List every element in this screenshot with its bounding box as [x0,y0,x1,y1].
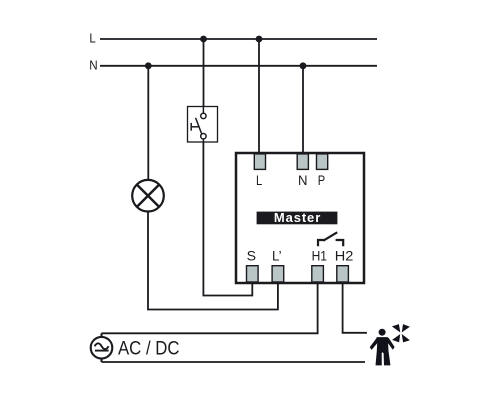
pin label L' [272,247,282,263]
fan / motion pinwheel [392,324,410,342]
terminal N [297,154,308,170]
pin label N [298,172,308,188]
device name plate Master [257,210,338,225]
terminal H2 [337,266,349,282]
pin label S [247,247,256,263]
svg-text:S: S [247,247,256,263]
terminal P [317,154,328,170]
pin label H1 [312,247,328,263]
wire N to lamp [147,66,149,180]
wire switch to S terminal [203,142,252,295]
svg-text:N: N [89,58,97,72]
person pictogram [370,329,395,366]
pin label P [318,172,325,188]
svg-text:AC / DC: AC / DC [118,339,180,360]
junction on L at device drop [256,36,263,43]
svg-text:H2: H2 [335,247,354,263]
wire H2 stub to sensor [343,282,367,333]
svg-text:L: L [89,32,95,46]
svg-text:L’: L’ [272,247,282,263]
net label L [89,32,95,46]
wire L bus to terminal L [258,39,260,153]
wire supply plus to H1 [102,332,319,334]
svg-text:H1: H1 [312,247,328,263]
lamp E1 [132,180,164,212]
wire H1 to supply [317,282,319,333]
terminal L' [272,266,284,282]
pin label L [256,172,262,188]
wire L bus [100,38,377,40]
svg-text:N: N [298,172,308,188]
relay contact between H1 and H2 [318,232,343,246]
wire L to switch [203,39,205,107]
device box (Master) [236,153,364,283]
wire N bus to terminal N [302,66,304,153]
wire supply minus to sensor [102,361,366,363]
wire N bus [100,65,377,67]
junction on N at device drop [300,62,307,69]
svg-text:Master: Master [274,210,321,225]
terminal S [247,266,259,282]
svg-text:P: P [318,172,325,188]
switch S1 box [188,107,218,143]
net label N [89,58,97,72]
terminal L [254,154,265,170]
supply G1 AC/DC source [91,333,113,362]
switch S1 push-button contact [191,107,206,143]
wire lamp to L' terminal [148,212,278,310]
junction on N at lamp drop [145,62,152,69]
terminal H1 [312,266,324,282]
pin label H2 [335,247,354,263]
supply label AC / DC [118,339,180,360]
junction on L at switch drop [200,36,207,43]
svg-text:L: L [256,172,262,188]
